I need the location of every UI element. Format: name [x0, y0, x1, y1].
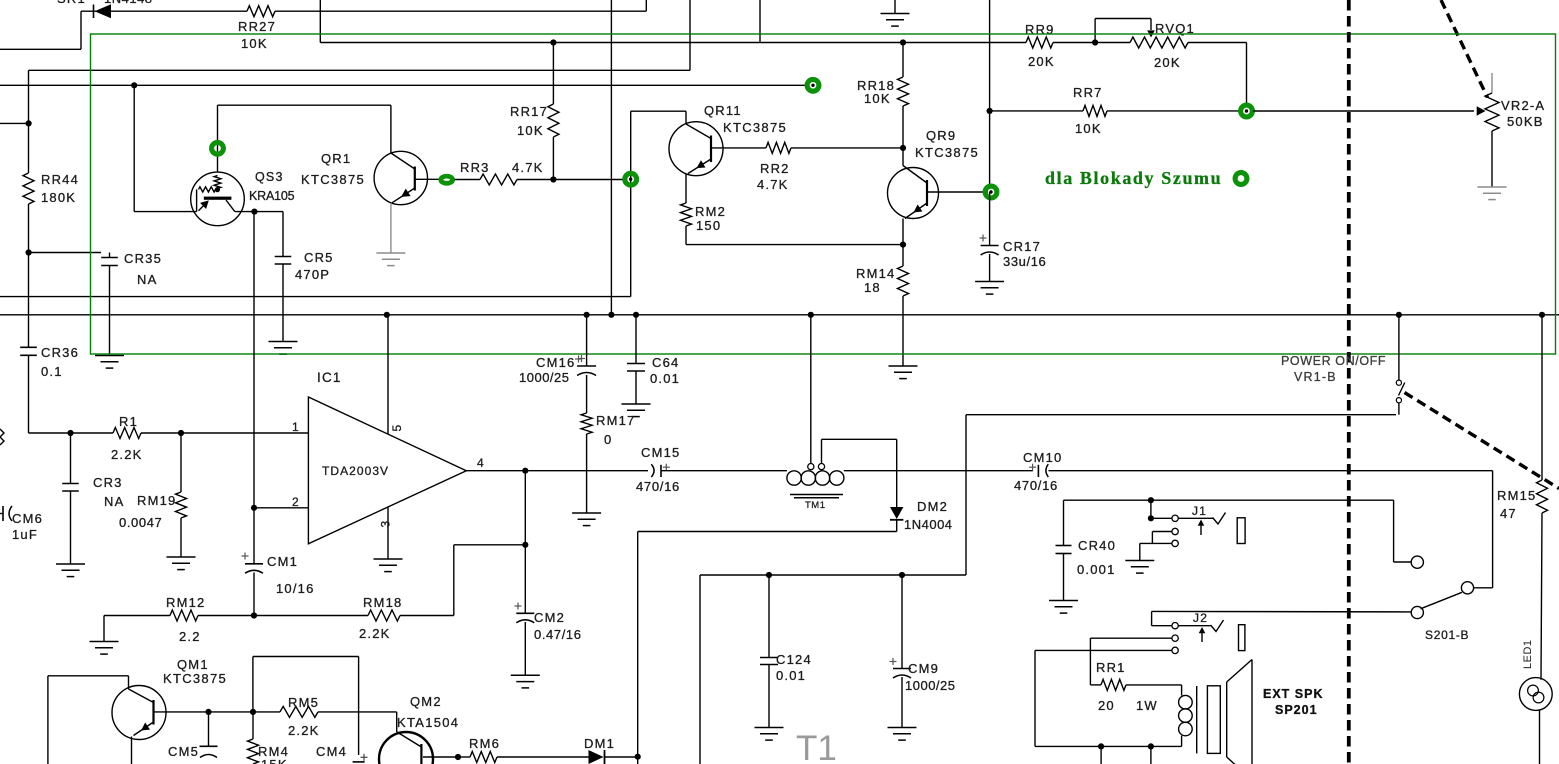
svg-text:CM10: CM10	[1023, 450, 1062, 465]
svg-text:CM6: CM6	[12, 511, 43, 526]
svg-text:2.2: 2.2	[179, 629, 201, 644]
svg-text:C64: C64	[652, 355, 679, 370]
svg-text:47: 47	[1500, 506, 1517, 521]
svg-text:10K: 10K	[1075, 121, 1102, 136]
svg-text:CM9: CM9	[908, 661, 939, 676]
svg-text:KRA105: KRA105	[249, 189, 295, 203]
svg-text:2.2K: 2.2K	[359, 626, 391, 641]
svg-text:CR36: CR36	[41, 345, 79, 360]
svg-text:QS3: QS3	[255, 170, 284, 184]
svg-text:2: 2	[292, 495, 300, 509]
svg-text:KTA1504: KTA1504	[397, 715, 459, 730]
svg-text:J1: J1	[1192, 504, 1207, 518]
svg-text:POWER ON/OFF: POWER ON/OFF	[1281, 354, 1386, 368]
svg-text:EXT SPK: EXT SPK	[1263, 687, 1324, 701]
svg-text:20: 20	[1098, 698, 1115, 713]
svg-text:18: 18	[864, 280, 881, 295]
svg-text:4: 4	[477, 456, 485, 470]
svg-text:CM4: CM4	[316, 744, 347, 759]
svg-text:33u/16: 33u/16	[1003, 254, 1046, 269]
svg-text:CR5: CR5	[304, 250, 334, 265]
svg-text:RR3: RR3	[460, 160, 490, 175]
svg-text:0.01: 0.01	[650, 371, 680, 386]
svg-text:IC1: IC1	[317, 370, 342, 385]
svg-text:CM15: CM15	[641, 445, 680, 460]
svg-text:RR17: RR17	[510, 104, 548, 119]
svg-text:CM5: CM5	[168, 744, 199, 759]
svg-text:1W: 1W	[1136, 698, 1158, 713]
svg-text:20K: 20K	[1154, 55, 1181, 70]
svg-text:T1: T1	[796, 729, 837, 764]
svg-text:RR1: RR1	[1096, 660, 1126, 675]
svg-text:470P: 470P	[295, 267, 330, 282]
svg-text:0.0047: 0.0047	[119, 515, 162, 530]
svg-text:RM15: RM15	[1497, 488, 1536, 503]
svg-text:RM6: RM6	[469, 736, 500, 751]
svg-text:dla Blokady Szumu: dla Blokady Szumu	[1045, 168, 1222, 188]
svg-text:10K: 10K	[517, 123, 544, 138]
svg-text:1: 1	[292, 420, 300, 434]
svg-text:DM2: DM2	[917, 499, 948, 514]
svg-text:RM14: RM14	[856, 266, 895, 281]
svg-text:J2: J2	[1193, 611, 1208, 625]
svg-text:S201-B: S201-B	[1425, 628, 1469, 642]
svg-text:TM1: TM1	[805, 500, 826, 511]
svg-text:1000/25: 1000/25	[519, 370, 570, 385]
svg-text:1N4148: 1N4148	[104, 0, 153, 6]
svg-text:1N4004: 1N4004	[904, 517, 953, 532]
svg-text:KTC3875: KTC3875	[301, 172, 365, 187]
svg-text:470/16: 470/16	[636, 479, 680, 494]
svg-text:NA: NA	[137, 272, 157, 287]
svg-text:470/16: 470/16	[1014, 478, 1058, 493]
svg-text:KTC3875: KTC3875	[723, 120, 787, 135]
svg-text:TDA2003V: TDA2003V	[322, 464, 389, 478]
svg-text:15K: 15K	[261, 757, 288, 764]
svg-text:1uF: 1uF	[12, 527, 38, 542]
svg-text:CM16: CM16	[536, 355, 575, 370]
svg-text:3: 3	[379, 521, 393, 528]
svg-text:CR35: CR35	[124, 251, 162, 266]
svg-text:150: 150	[696, 218, 721, 233]
svg-text:KTC3875: KTC3875	[163, 671, 227, 686]
svg-text:C124: C124	[776, 652, 812, 667]
svg-text:180K: 180K	[41, 190, 76, 205]
svg-text:0.001: 0.001	[1077, 562, 1116, 577]
svg-text:RR27: RR27	[238, 19, 276, 34]
svg-text:SR1: SR1	[57, 0, 86, 6]
svg-text:10K: 10K	[864, 91, 891, 106]
svg-text:50KB: 50KB	[1507, 114, 1544, 129]
svg-text:10K: 10K	[241, 36, 268, 51]
svg-text:RM2: RM2	[695, 204, 726, 219]
svg-text:RM5: RM5	[288, 695, 319, 710]
svg-text:NA: NA	[104, 494, 124, 509]
svg-text:RM17: RM17	[596, 413, 635, 428]
svg-text:1000/25: 1000/25	[905, 678, 956, 693]
svg-text:CR40: CR40	[1078, 538, 1116, 553]
svg-text:CR17: CR17	[1003, 239, 1041, 254]
svg-text:QM2: QM2	[410, 694, 442, 709]
svg-text:QR11: QR11	[704, 103, 742, 118]
svg-text:VR1-B: VR1-B	[1294, 370, 1337, 384]
svg-text:QR1: QR1	[321, 151, 351, 166]
svg-text:VR2-A: VR2-A	[1501, 98, 1545, 113]
svg-text:0: 0	[604, 432, 612, 447]
svg-text:0.1: 0.1	[41, 364, 63, 379]
svg-text:QM1: QM1	[177, 657, 209, 672]
svg-text:2.2K: 2.2K	[111, 447, 143, 462]
svg-text:CR3: CR3	[93, 475, 123, 490]
svg-text:KTC3875: KTC3875	[915, 145, 979, 160]
svg-text:2.2K: 2.2K	[288, 723, 320, 738]
svg-text:DM1: DM1	[584, 736, 615, 751]
svg-text:0.01: 0.01	[776, 668, 806, 683]
svg-text:CM2: CM2	[534, 610, 565, 625]
svg-text:0.47/16: 0.47/16	[534, 627, 582, 642]
svg-text:QR9: QR9	[926, 128, 956, 143]
svg-text:R1: R1	[119, 414, 138, 429]
svg-text:RR2: RR2	[760, 161, 790, 176]
svg-text:LED1: LED1	[1522, 639, 1534, 669]
svg-text:20K: 20K	[1028, 54, 1055, 69]
svg-text:SP201: SP201	[1275, 703, 1318, 717]
svg-text:CM1: CM1	[267, 554, 298, 569]
svg-text:4.7K: 4.7K	[757, 177, 789, 192]
svg-text:RM12: RM12	[166, 595, 205, 610]
svg-text:4.7K: 4.7K	[512, 160, 544, 175]
svg-text:RM19: RM19	[137, 493, 176, 508]
svg-text:5: 5	[390, 425, 404, 432]
svg-text:RM18: RM18	[363, 595, 402, 610]
svg-text:RR9: RR9	[1025, 22, 1055, 37]
svg-text:RR44: RR44	[41, 172, 79, 187]
svg-text:RR7: RR7	[1073, 85, 1103, 100]
svg-text:10/16: 10/16	[276, 581, 315, 596]
